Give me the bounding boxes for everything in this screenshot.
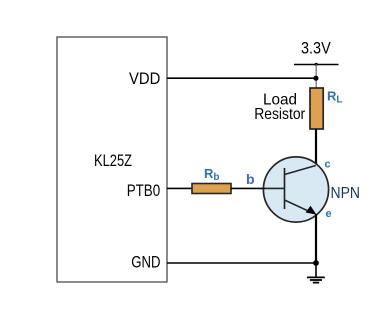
wire PTB0 to Rb (167, 187, 192, 189)
wire VDD to node (167, 77, 316, 79)
svg-text:c: c (325, 159, 331, 171)
svg-text:VDD: VDD (129, 69, 160, 88)
junction node VDD/RL (313, 76, 318, 81)
wire rail to VDD node (gray) (315, 65, 317, 89)
wire RL to collector (315, 129, 317, 167)
wire node to ground symbol (315, 263, 317, 277)
wire emitter to GND node (315, 214, 317, 263)
svg-text:RL: RL (327, 89, 343, 106)
resistor Rb (192, 184, 231, 194)
transistor Q1 NPN (263, 157, 328, 222)
svg-text:GND: GND (131, 252, 160, 271)
ground (307, 277, 325, 282)
svg-text:KL25Z: KL25Z (94, 151, 132, 170)
svg-text:e: e (326, 208, 332, 220)
junction dot on rail (315, 63, 318, 66)
svg-text:b: b (246, 171, 255, 187)
svg-text:3.3V: 3.3V (301, 38, 331, 57)
junction node emitter/GND (313, 260, 319, 266)
svg-text:Rb: Rb (204, 166, 220, 183)
microcontroller U1 KL25Z box (57, 37, 167, 282)
svg-text:NPN: NPN (331, 185, 361, 202)
wire Rb to base (231, 187, 265, 189)
power rail 3.3V (294, 64, 339, 66)
svg-text:PTB0: PTB0 (127, 181, 161, 200)
resistor RL (310, 88, 323, 129)
svg-text:Resistor: Resistor (254, 106, 306, 123)
wire GND (167, 262, 316, 264)
